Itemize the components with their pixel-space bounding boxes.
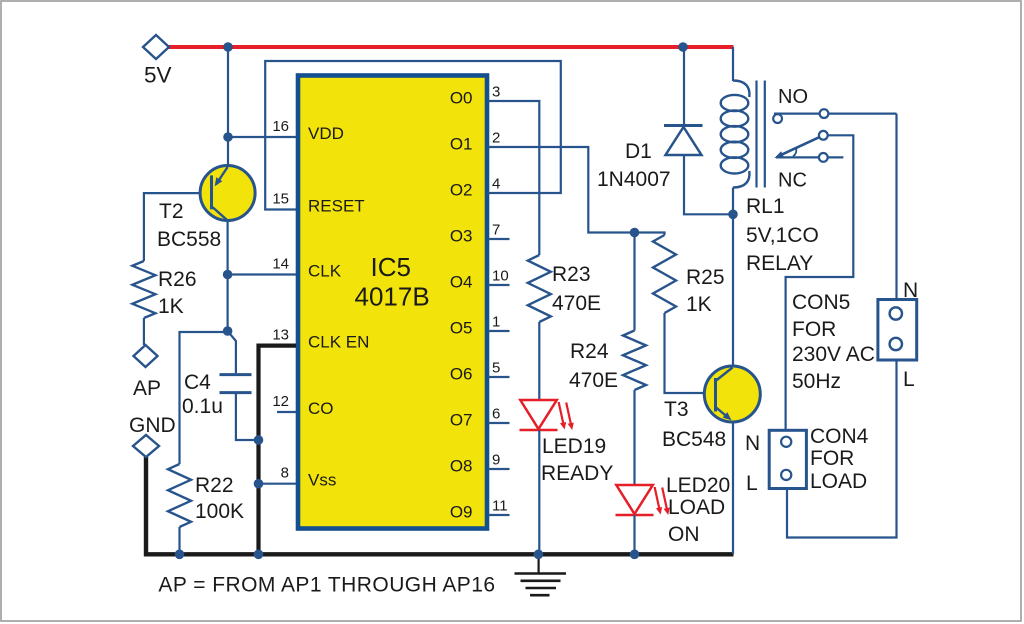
svg-text:15: 15 — [272, 191, 289, 208]
svg-text:4: 4 — [492, 176, 500, 193]
svg-text:50Hz: 50Hz — [792, 370, 841, 393]
svg-text:0.1u: 0.1u — [182, 395, 223, 418]
svg-text:R26: R26 — [158, 268, 197, 291]
svg-text:R23: R23 — [552, 263, 591, 286]
svg-text:BC558: BC558 — [157, 228, 221, 251]
svg-text:R25: R25 — [686, 266, 725, 289]
svg-text:NC: NC — [778, 170, 807, 192]
svg-text:C4: C4 — [184, 371, 211, 394]
svg-text:GND: GND — [129, 414, 176, 437]
svg-text:O8: O8 — [450, 457, 473, 476]
svg-text:5V: 5V — [144, 63, 172, 88]
svg-text:CON4: CON4 — [810, 425, 869, 448]
svg-text:1K: 1K — [158, 295, 184, 318]
svg-text:D1: D1 — [625, 140, 652, 163]
svg-text:3: 3 — [492, 84, 500, 101]
svg-text:O3: O3 — [450, 227, 473, 246]
svg-text:O2: O2 — [450, 181, 473, 200]
svg-text:4017B: 4017B — [355, 282, 430, 312]
svg-text:R22: R22 — [195, 474, 234, 497]
svg-text:LOAD: LOAD — [668, 496, 725, 519]
svg-text:VDD: VDD — [308, 124, 344, 143]
svg-text:L: L — [903, 368, 915, 391]
svg-text:O9: O9 — [450, 503, 473, 522]
svg-text:O1: O1 — [450, 135, 473, 154]
svg-text:O0: O0 — [450, 89, 473, 108]
svg-text:READY: READY — [541, 462, 613, 485]
svg-text:11: 11 — [492, 498, 508, 515]
svg-text:2: 2 — [492, 130, 500, 147]
svg-text:RESET: RESET — [308, 197, 365, 216]
svg-text:470E: 470E — [552, 292, 601, 315]
svg-text:AP: AP — [133, 377, 161, 400]
svg-text:RL1: RL1 — [746, 195, 785, 218]
svg-text:T3: T3 — [664, 398, 689, 421]
svg-text:O6: O6 — [450, 365, 473, 384]
svg-text:8: 8 — [281, 465, 289, 482]
svg-text:16: 16 — [272, 118, 289, 135]
svg-text:CO: CO — [308, 399, 334, 418]
svg-text:230V AC: 230V AC — [792, 343, 875, 366]
svg-text:CON5: CON5 — [792, 291, 850, 314]
svg-text:1K: 1K — [686, 293, 712, 316]
svg-text:7: 7 — [492, 222, 500, 239]
svg-text:1N4007: 1N4007 — [597, 168, 671, 191]
svg-text:CLK: CLK — [308, 262, 342, 281]
svg-text:AP = FROM AP1 THROUGH AP16: AP = FROM AP1 THROUGH AP16 — [158, 574, 495, 597]
svg-text:5V,1CO: 5V,1CO — [746, 224, 819, 247]
svg-text:LOAD: LOAD — [810, 470, 867, 493]
svg-text:9: 9 — [492, 452, 500, 469]
svg-text:N: N — [745, 432, 760, 455]
svg-text:LED20: LED20 — [666, 474, 730, 497]
svg-text:RELAY: RELAY — [746, 252, 813, 275]
svg-text:T2: T2 — [159, 200, 184, 223]
svg-text:12: 12 — [272, 393, 289, 410]
svg-text:13: 13 — [272, 327, 289, 344]
svg-text:LED19: LED19 — [542, 435, 606, 458]
svg-text:ON: ON — [668, 523, 700, 546]
svg-text:O7: O7 — [450, 411, 473, 430]
svg-text:IC5: IC5 — [371, 252, 411, 282]
svg-text:6: 6 — [492, 406, 500, 423]
svg-text:100K: 100K — [195, 500, 244, 523]
svg-text:L: L — [746, 472, 758, 495]
svg-text:470E: 470E — [569, 369, 618, 392]
svg-text:14: 14 — [272, 256, 289, 273]
svg-text:CLK EN: CLK EN — [308, 333, 369, 352]
svg-text:BC548: BC548 — [662, 428, 726, 451]
svg-text:NO: NO — [778, 86, 808, 108]
svg-text:FOR: FOR — [792, 318, 836, 341]
svg-text:O5: O5 — [450, 319, 473, 338]
svg-text:Vss: Vss — [308, 471, 336, 490]
svg-text:R24: R24 — [570, 340, 609, 363]
svg-text:N: N — [903, 279, 918, 302]
svg-text:5: 5 — [492, 360, 500, 377]
svg-text:10: 10 — [492, 268, 509, 285]
svg-text:FOR: FOR — [810, 447, 854, 470]
svg-text:O4: O4 — [450, 273, 473, 292]
svg-text:1: 1 — [492, 314, 500, 331]
